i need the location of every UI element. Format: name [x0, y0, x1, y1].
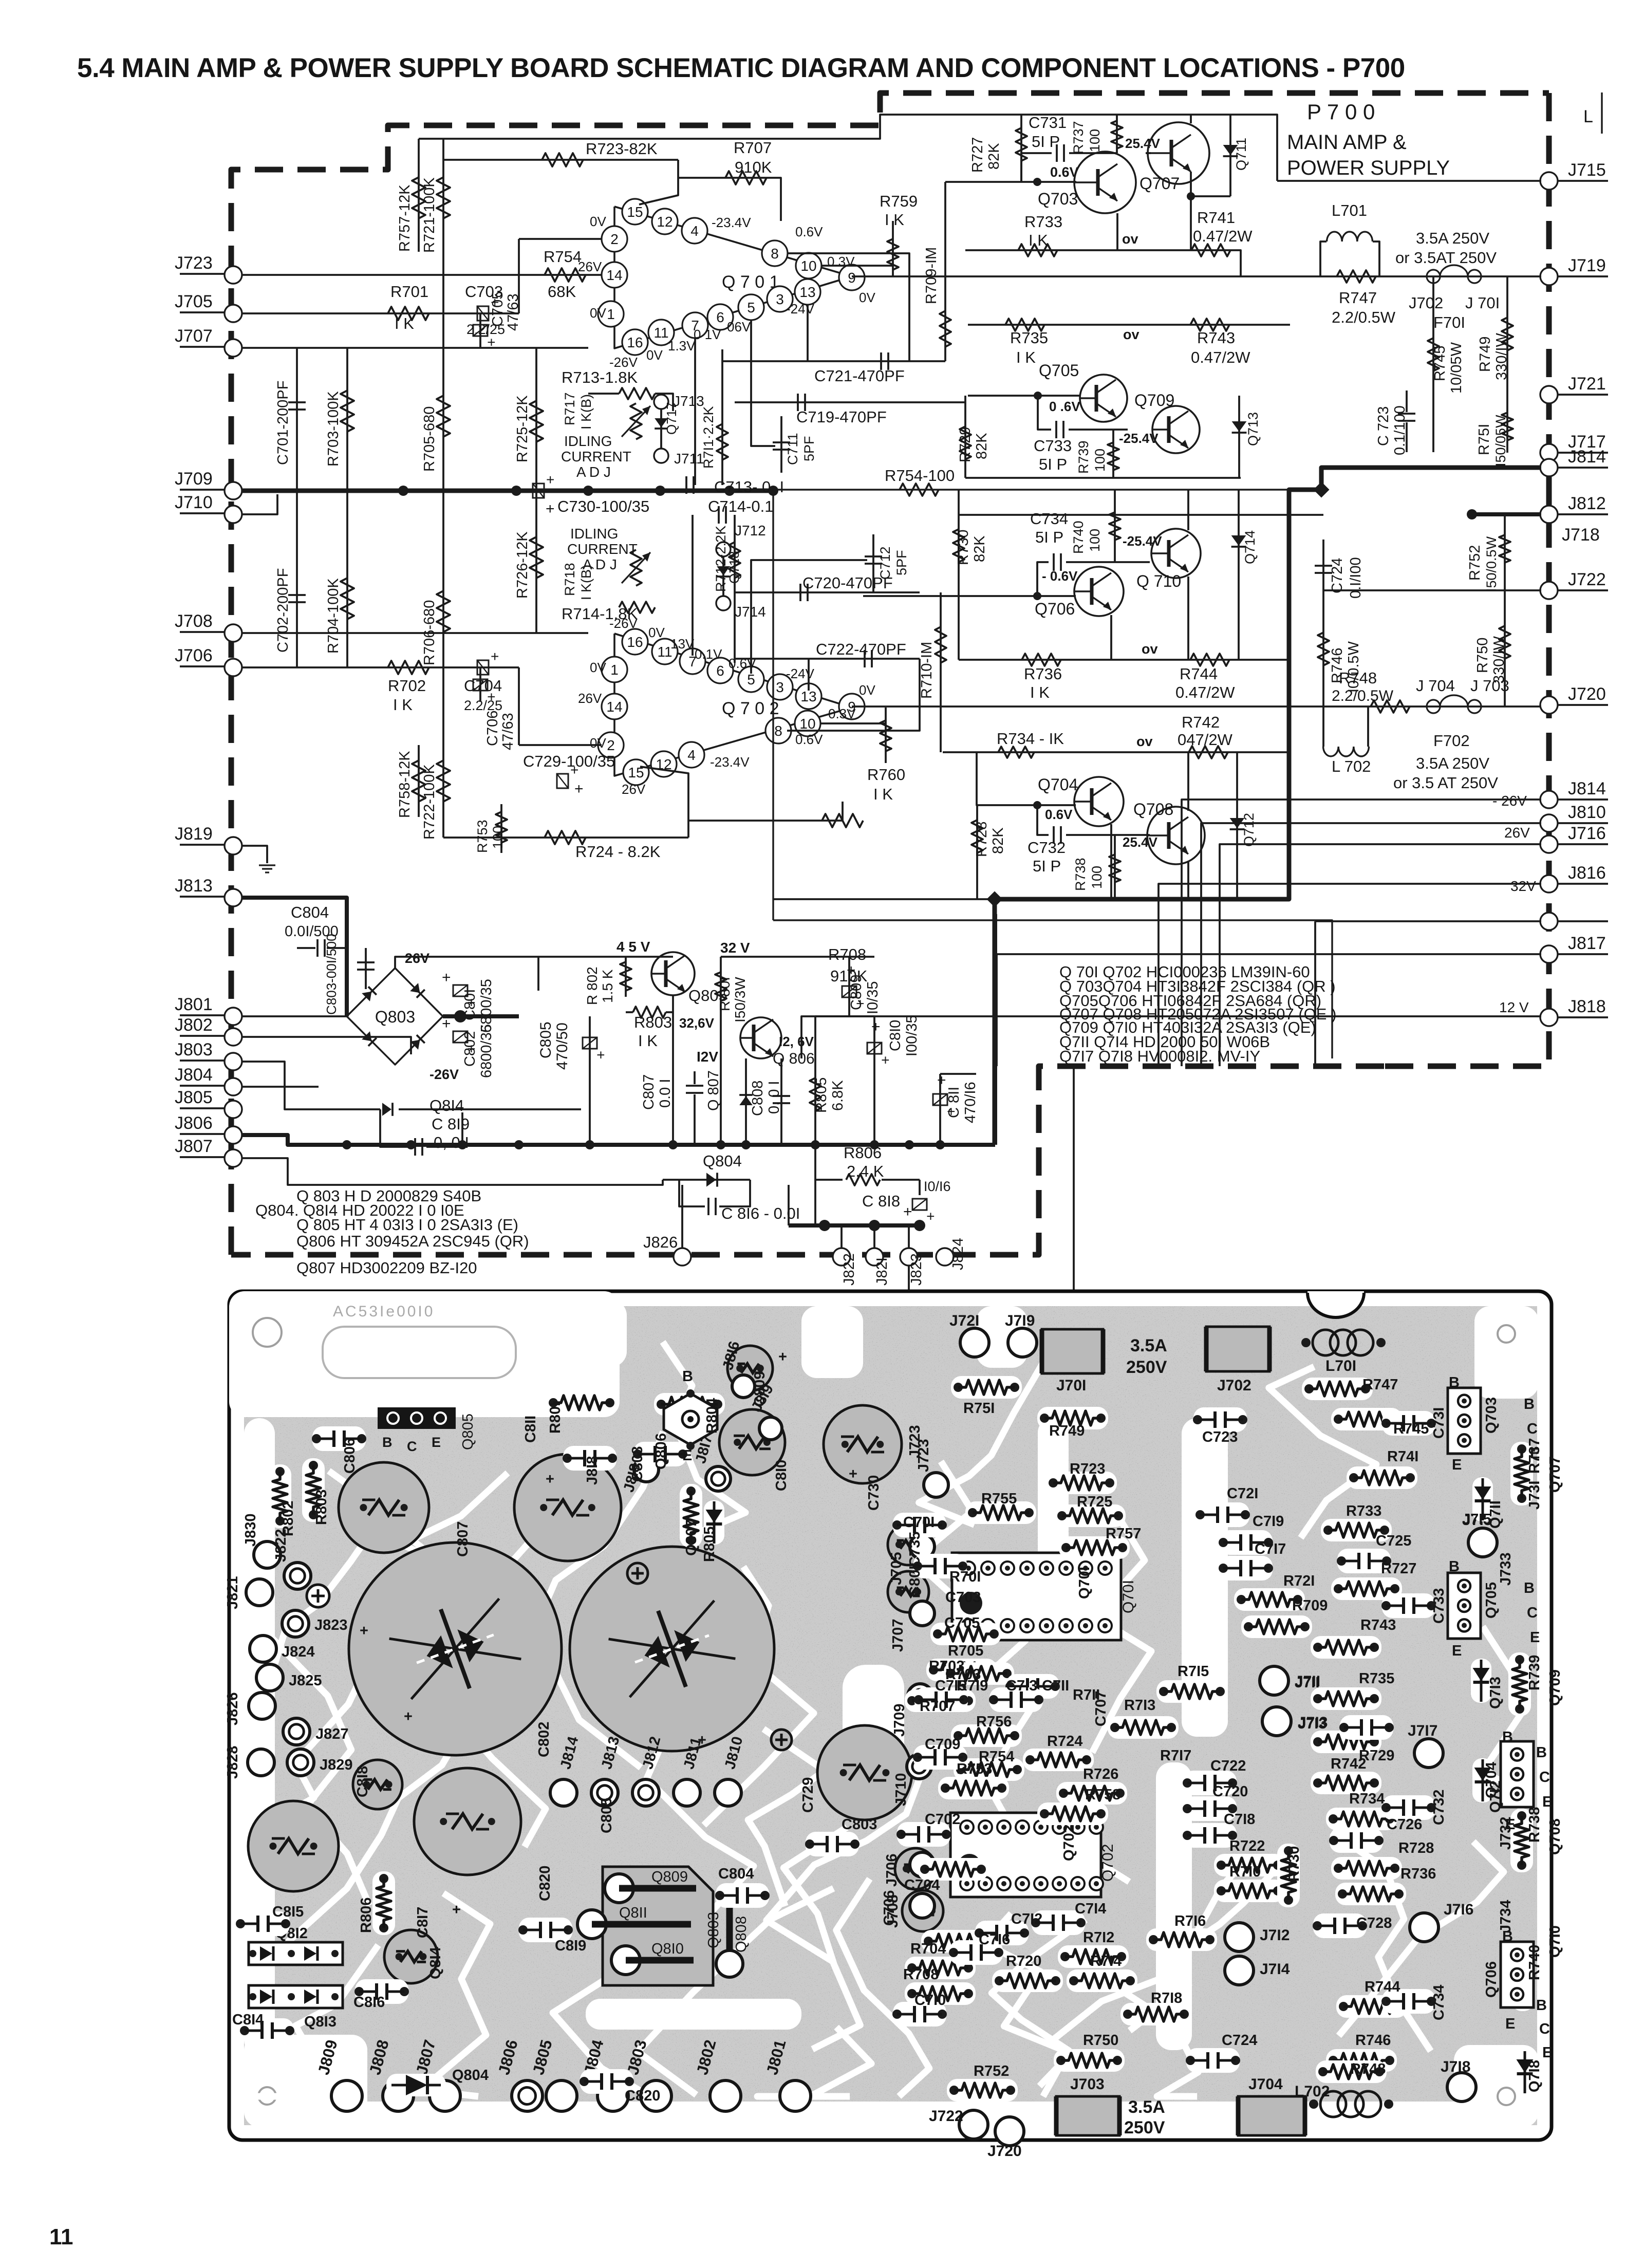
- svg-text:R7I1·2.2K: R7I1·2.2K: [701, 406, 716, 469]
- svg-text:6: 6: [716, 663, 724, 679]
- pad J806: [512, 2080, 543, 2111]
- svg-text:Q708: Q708: [1133, 800, 1173, 819]
- svg-text:Q7I7 Q7I8 HV0008I2. MV-IY: Q7I7 Q7I8 HV0008I2. MV-IY: [1059, 1047, 1260, 1065]
- pad J828: [248, 1749, 274, 1776]
- svg-text:+: +: [483, 693, 499, 701]
- svg-text:6800/35: 6800/35: [478, 1024, 495, 1078]
- resistor R735: [1005, 319, 1044, 331]
- pad J829: [287, 1749, 314, 1776]
- svg-text:100: 100: [1087, 129, 1103, 152]
- wire J707: [242, 347, 588, 349]
- resistor R715 (PCB): [1156, 1680, 1227, 1703]
- svg-text:J710: J710: [175, 493, 213, 512]
- pad J814: [550, 1779, 577, 1806]
- base feed Q704: [977, 752, 1076, 805]
- transistor Q805: [651, 952, 695, 995]
- connector J802: [180, 1035, 225, 1037]
- pad J723: [924, 1473, 948, 1497]
- mount hole: [253, 1318, 282, 1347]
- svg-text:R722-100K: R722-100K: [421, 764, 438, 840]
- svg-text:R756: R756: [976, 1714, 1012, 1730]
- svg-text:J806: J806: [175, 1113, 213, 1133]
- transistor Q703pkg (PCB package): [1448, 1388, 1481, 1454]
- resistor R704: [346, 491, 348, 667]
- svg-text:Q707: Q707: [1139, 174, 1180, 193]
- svg-text:C701-200PF: C701-200PF: [275, 381, 291, 465]
- resistor R710 (PCB): [1214, 1880, 1285, 1902]
- resistor R802pcb (PCB): [269, 1464, 291, 1528]
- Q702 pin 7: [680, 648, 705, 674]
- svg-text:R7I6: R7I6: [1174, 1913, 1206, 1929]
- svg-text:Q702: Q702: [1099, 1844, 1116, 1882]
- svg-text:14: 14: [606, 267, 622, 283]
- resistor R742 (PCB): [1311, 1772, 1381, 1794]
- svg-text:R742: R742: [1182, 713, 1220, 731]
- svg-text:C804: C804: [718, 1866, 754, 1882]
- svg-text:0V: 0V: [646, 347, 663, 363]
- capacitor C723: [1398, 413, 1415, 415]
- pad J823: [282, 1610, 309, 1637]
- connector J711: [654, 449, 668, 463]
- svg-text:R703-100K: R703-100K: [325, 391, 342, 467]
- pad J819: [759, 1417, 782, 1440]
- svg-text:C702: C702: [925, 1811, 960, 1828]
- connector J716: [1540, 835, 1558, 853]
- svg-text:I50/05W: I50/05W: [1493, 415, 1508, 467]
- svg-text:C735: C735: [907, 1532, 923, 1567]
- svg-text:J715: J715: [1568, 160, 1606, 180]
- Q701 pin 14: [602, 262, 627, 288]
- capacitor C801: [453, 985, 479, 1007]
- Q808 bar: [726, 1891, 733, 1960]
- fuse holder J701: [1042, 1329, 1103, 1373]
- junction bus: [870, 1140, 879, 1149]
- svg-text:R80I: R80I: [547, 1402, 564, 1434]
- svg-text:Q708: Q708: [1547, 1818, 1563, 1855]
- svg-text:C8I7: C8I7: [415, 1907, 431, 1938]
- svg-text:C707: C707: [1093, 1691, 1109, 1726]
- wire J705: [242, 312, 519, 314]
- svg-text:Q705: Q705: [1039, 361, 1079, 380]
- capacitor C819: [380, 1109, 411, 1147]
- connector J824: [936, 1248, 954, 1266]
- connector J818: [1540, 1009, 1558, 1026]
- fuse holder J703: [1056, 2096, 1119, 2135]
- connector right pad: [1540, 913, 1558, 930]
- svg-text:J722: J722: [1568, 570, 1606, 589]
- svg-text:+: +: [778, 1349, 787, 1365]
- svg-text:C805: C805: [599, 1798, 615, 1833]
- diode pack Q813 (PCB): [249, 1985, 343, 2008]
- svg-text:R754-100: R754-100: [885, 467, 955, 485]
- wire output bus ch1: [852, 275, 1541, 277]
- svg-text:10/05W: 10/05W: [1448, 342, 1465, 394]
- svg-text:C730: C730: [866, 1475, 882, 1511]
- resistor R730 (PCB): [1277, 1844, 1300, 1907]
- resistor R713 (PCB): [1108, 1716, 1179, 1739]
- svg-text:3: 3: [776, 679, 784, 695]
- svg-text:B: B: [1449, 1374, 1460, 1391]
- capacitor C705pcb (PCB): [888, 1571, 929, 1612]
- pad J708: [910, 1893, 935, 1918]
- svg-text:B: B: [1524, 1580, 1535, 1596]
- svg-text:910K: 910K: [735, 158, 772, 176]
- svg-text:J827: J827: [315, 1726, 349, 1742]
- wire J807: [242, 1158, 663, 1185]
- svg-text:J722: J722: [929, 2108, 963, 2125]
- capacitor C816pcb (PCB): [355, 1979, 408, 2004]
- svg-text:R743: R743: [1360, 1617, 1396, 1633]
- svg-text:Q7I3: Q7I3: [1487, 1677, 1504, 1709]
- connector J719: [1540, 268, 1558, 285]
- svg-text:J826: J826: [225, 1692, 241, 1725]
- connector J705: [180, 311, 225, 313]
- svg-text:- 26V: - 26V: [1492, 793, 1527, 809]
- svg-text:Q809: Q809: [651, 1869, 688, 1885]
- svg-text:1: 1: [607, 306, 615, 322]
- svg-text:L702: L702: [1295, 2083, 1330, 2100]
- svg-text:13: 13: [799, 284, 815, 300]
- capacitor C722-470PF: [735, 658, 920, 660]
- resistor R729 (PCB): [1311, 1731, 1381, 1753]
- diode Q711pcb (PCB): [1472, 1477, 1493, 1521]
- svg-text:R803: R803: [313, 1490, 330, 1525]
- svg-text:R725-12K: R725-12K: [514, 395, 531, 462]
- svg-text:R754: R754: [544, 248, 582, 266]
- svg-text:R738: R738: [1526, 1807, 1543, 1843]
- svg-text:3.5A 250V: 3.5A 250V: [1416, 754, 1489, 772]
- connector J723: [180, 273, 225, 275]
- Q809 bar: [605, 1874, 633, 1903]
- resistor R753 100: [500, 804, 502, 853]
- fuse F702: [1427, 700, 1440, 713]
- svg-text:C820: C820: [537, 1866, 553, 1901]
- svg-text:R745: R745: [1432, 346, 1448, 381]
- capacitor C808pcb (PCB): [633, 1442, 687, 1466]
- capacitor C729 (PCB): [817, 1725, 912, 1820]
- svg-text:J711: J711: [674, 451, 704, 467]
- svg-text:IDLING: IDLING: [564, 433, 612, 449]
- connector J819: [180, 844, 225, 846]
- svg-text:C 8I9: C 8I9: [432, 1115, 470, 1133]
- svg-text:25.4V: 25.4V: [1123, 834, 1158, 850]
- wire pin7 Q701: [694, 339, 696, 485]
- svg-text:R714-1.8K: R714-1.8K: [562, 605, 638, 623]
- svg-text:8: 8: [771, 246, 779, 262]
- svg-text:J7I5: J7I5: [1462, 1511, 1491, 1528]
- resistor R734-1K: [998, 747, 1034, 758]
- svg-text:+: +: [546, 1471, 554, 1488]
- svg-text:R724 - 8.2K: R724 - 8.2K: [575, 843, 661, 861]
- coil L701 (PCB): [1313, 1330, 1338, 1355]
- coil L702 (PCB): [1320, 2091, 1346, 2117]
- svg-text:ov: ov: [1142, 641, 1158, 657]
- svg-text:R723-82K: R723-82K: [586, 140, 658, 158]
- svg-text:E: E: [432, 1435, 441, 1450]
- svg-text:Q8II: Q8II: [619, 1905, 647, 1921]
- resistor R757-12K: [418, 139, 420, 252]
- capacitor C814pcb (PCB): [240, 2018, 294, 2043]
- svg-text:5I P: 5I P: [1035, 528, 1063, 546]
- svg-text:J813: J813: [175, 876, 213, 896]
- connector J709: [180, 489, 225, 491]
- svg-text:I50/0.5W: I50/0.5W: [1484, 536, 1499, 592]
- svg-text:C709: C709: [925, 1736, 960, 1753]
- svg-text:Q7I8: Q7I8: [1526, 2060, 1543, 2092]
- svg-text:R727: R727: [969, 137, 986, 173]
- svg-text:J702: J702: [1217, 1377, 1251, 1394]
- svg-text:Q711: Q711: [1234, 138, 1249, 171]
- svg-text:R701: R701: [390, 283, 428, 301]
- svg-text:J719: J719: [1568, 256, 1606, 275]
- pad J825: [256, 1664, 283, 1691]
- capacitor C706pcb (PCB): [902, 1890, 943, 1931]
- wire J802: [242, 1037, 411, 1054]
- connector J707: [180, 346, 225, 348]
- resistor R805: [814, 1016, 816, 1145]
- svg-text:06V: 06V: [727, 319, 751, 334]
- svg-text:0.1/100: 0.1/100: [1392, 405, 1408, 455]
- resistor R748: [1371, 700, 1410, 713]
- svg-text:MAIN AMP &: MAIN AMP &: [1287, 131, 1407, 154]
- capacitor C719 (PCB): [1219, 1530, 1273, 1555]
- capacitor C805: [589, 1016, 591, 1145]
- svg-text:0.6V: 0.6V: [795, 224, 823, 239]
- capacitor C719-470PF: [735, 401, 965, 403]
- capacitor C720 (PCB): [1183, 1796, 1237, 1821]
- base line Q705: [968, 395, 1081, 397]
- junction bus: [716, 1140, 725, 1149]
- svg-text:0.I/I00: 0.I/I00: [1348, 557, 1364, 599]
- svg-text:C730-100/35: C730-100/35: [557, 497, 649, 515]
- resistor R718 (PCB): [1120, 2003, 1191, 2025]
- svg-text:J712: J712: [735, 523, 766, 538]
- resistor R725-12K: [535, 348, 537, 491]
- svg-text:5I P: 5I P: [1032, 133, 1060, 151]
- svg-text:C711: C711: [785, 433, 800, 465]
- svg-text:1: 1: [610, 662, 619, 678]
- svg-text:I K: I K: [1016, 348, 1036, 366]
- pad J803: [641, 2080, 671, 2111]
- svg-text:C803-00I/500: C803-00I/500: [324, 934, 339, 1015]
- svg-text:R730: R730: [1286, 1846, 1302, 1882]
- svg-text:R750: R750: [1083, 2032, 1118, 2049]
- svg-text:0V: 0V: [859, 682, 875, 698]
- resistor R737 100: [1116, 115, 1118, 153]
- svg-text:C8I0: C8I0: [887, 1020, 904, 1051]
- svg-text:2: 2: [610, 231, 619, 247]
- diode Q712pcb (PCB): [1472, 1758, 1493, 1802]
- traces: [535, 1432, 663, 1665]
- svg-text:E: E: [1505, 2016, 1515, 2032]
- capacitor C801 (PCB): [570, 1547, 774, 1751]
- svg-text:R7I7: R7I7: [1160, 1748, 1191, 1764]
- connector J715: [1540, 172, 1558, 190]
- diode Q712: [1236, 752, 1238, 899]
- svg-text:C73I: C73I: [1431, 1407, 1447, 1439]
- connector J706: [180, 665, 225, 667]
- thin drop x1505: [772, 491, 774, 920]
- svg-text:Q 7 0 2: Q 7 0 2: [722, 699, 779, 718]
- capacitor C703pcb (PCB): [888, 1524, 929, 1565]
- svg-text:C804: C804: [291, 903, 329, 921]
- svg-text:C 723: C 723: [1375, 406, 1392, 446]
- capacitor C810 (PCB): [719, 1409, 785, 1475]
- wire pin13 Q702: [808, 659, 810, 691]
- svg-text:100: 100: [490, 826, 506, 849]
- svg-text:R75I: R75I: [963, 1400, 995, 1417]
- resistor R756 (PCB): [951, 1724, 1022, 1747]
- svg-text:2.2/0.5W: 2.2/0.5W: [1332, 687, 1394, 704]
- svg-text:J705: J705: [175, 292, 213, 311]
- svg-text:R733: R733: [1346, 1503, 1381, 1519]
- svg-text:+: +: [483, 338, 499, 346]
- capacitor C811: [939, 1074, 941, 1145]
- svg-text:J 704: J 704: [1416, 677, 1455, 695]
- svg-text:C734: C734: [1030, 510, 1068, 528]
- transistor Q805 (PCB): [378, 1407, 456, 1429]
- svg-text:R737: R737: [1526, 1438, 1543, 1474]
- svg-text:0.3V: 0.3V: [828, 706, 856, 721]
- svg-text:3.5A: 3.5A: [1130, 1336, 1167, 1355]
- svg-text:5: 5: [747, 300, 755, 315]
- svg-text:5PF: 5PF: [894, 550, 909, 575]
- svg-text:J823: J823: [314, 1617, 348, 1633]
- svg-text:0V: 0V: [859, 290, 875, 305]
- svg-text:26V: 26V: [622, 782, 646, 797]
- resistor R722-100K: [442, 667, 444, 838]
- svg-text:Q707: Q707: [1547, 1456, 1563, 1493]
- junction bus: [905, 1140, 914, 1149]
- resistor R729 82K: [964, 396, 966, 478]
- svg-text:Q 710: Q 710: [1136, 572, 1181, 590]
- svg-text:I K(B): I K(B): [578, 394, 594, 430]
- diode Q804 (PCB): [386, 2074, 446, 2096]
- svg-text:C725: C725: [1376, 1533, 1411, 1549]
- capacitor C711 (PCB): [1006, 1674, 1059, 1699]
- svg-text:J707: J707: [890, 1619, 906, 1652]
- svg-text:I K: I K: [393, 696, 413, 714]
- svg-text:C7I7: C7I7: [1255, 1541, 1286, 1557]
- Q701 pin 12: [652, 209, 678, 234]
- svg-text:100: 100: [1089, 866, 1105, 889]
- connector J713: [654, 395, 668, 409]
- svg-text:R713-1.8K: R713-1.8K: [562, 368, 638, 386]
- trace channel: [1038, 1418, 1069, 1634]
- rail J716: [1220, 844, 1541, 1066]
- pad J713: [1262, 1707, 1291, 1736]
- capacitor C819pcb (PCB): [519, 1918, 572, 1942]
- svg-text:J7I8: J7I8: [1441, 2058, 1470, 2075]
- transistor Q707: [1148, 122, 1209, 184]
- capacitor C811 (PCB): [514, 1454, 621, 1561]
- resistor R743 (PCB): [1311, 1636, 1381, 1659]
- Q702 pin 8: [765, 718, 791, 743]
- wire pin5 Q701: [751, 321, 775, 446]
- svg-text:R739: R739: [1526, 1655, 1543, 1690]
- svg-text:3.5A 250V: 3.5A 250V: [1416, 229, 1489, 247]
- svg-text:R724: R724: [1047, 1733, 1082, 1750]
- svg-text:26V: 26V: [578, 691, 602, 706]
- svg-text:82K: 82K: [986, 143, 1002, 170]
- capacitor C810: [873, 1016, 875, 1145]
- svg-text:C720: C720: [1212, 1783, 1248, 1800]
- resistor R806: [815, 1145, 843, 1180]
- svg-text:J706: J706: [884, 1853, 900, 1887]
- svg-text:J709: J709: [175, 469, 213, 489]
- svg-text:Q713: Q713: [1245, 412, 1261, 446]
- resistor R709 (PCB): [1241, 1615, 1312, 1638]
- connector J813: [180, 896, 225, 898]
- svg-text:J70I: J70I: [1056, 1377, 1086, 1394]
- svg-text:J7I7: J7I7: [1408, 1722, 1437, 1739]
- svg-text:Q7I2: Q7I2: [1487, 1780, 1504, 1813]
- svg-text:C80I: C80I: [907, 1566, 923, 1597]
- svg-text:C722-470PF: C722-470PF: [816, 640, 906, 658]
- svg-text:250V: 250V: [1124, 2118, 1165, 2137]
- svg-text:J816: J816: [1568, 863, 1606, 883]
- svg-text:+: +: [452, 1902, 461, 1918]
- svg-text:J802: J802: [175, 1015, 213, 1035]
- svg-text:J826: J826: [643, 1233, 678, 1251]
- op-amp U Q701 triangle: [614, 207, 852, 348]
- pad J720: [995, 2117, 1024, 2146]
- svg-text:R707: R707: [734, 139, 772, 157]
- junction bus: [406, 1140, 416, 1149]
- transistor Q706pkg (PCB package): [1501, 1942, 1534, 2007]
- svg-text:82K: 82K: [972, 535, 988, 562]
- svg-text:C724: C724: [1222, 2032, 1257, 2049]
- svg-text:R737: R737: [1071, 121, 1086, 154]
- Q701 pin 7: [682, 312, 708, 338]
- svg-text:J7I4: J7I4: [1260, 1961, 1290, 1978]
- svg-text:Q70I: Q70I: [1076, 1567, 1093, 1599]
- junction bus: [811, 1140, 820, 1149]
- svg-text:C732: C732: [1431, 1790, 1447, 1825]
- svg-text:Q806 HT 309452A 2SC945 (: Q806 HT 309452A 2SC945 (QR): [296, 1232, 529, 1250]
- rail 12V J818: [801, 1016, 1541, 1058]
- svg-text:0.0 I: 0.0 I: [657, 1079, 674, 1108]
- svg-text:R712-2.2K: R712-2.2K: [713, 526, 728, 592]
- svg-text:C: C: [1527, 1421, 1538, 1437]
- trace channel: [843, 1665, 904, 1798]
- svg-text:C732: C732: [1027, 839, 1066, 857]
- resistor R701: [388, 307, 429, 320]
- capacitor C733pcb (PCB): [1382, 1593, 1435, 1618]
- junction bus: [668, 1140, 678, 1149]
- svg-text:C7I0: C7I0: [914, 1992, 946, 2009]
- svg-text:+: +: [574, 780, 584, 797]
- capacitor C723 (PCB): [1193, 1407, 1247, 1432]
- connector J801: [180, 1014, 225, 1016]
- svg-text:C719-470PF: C719-470PF: [796, 408, 887, 426]
- resistor R746 (PCB): [1326, 2049, 1397, 2072]
- transistor Q710: [1151, 529, 1201, 578]
- svg-text:F702: F702: [1433, 732, 1470, 750]
- capacitor C816: [679, 1180, 705, 1206]
- resistor R716 (PCB): [1146, 1928, 1217, 1951]
- capacitor C720-470PF: [735, 591, 920, 593]
- svg-text:8: 8: [774, 723, 782, 739]
- svg-text:J720: J720: [987, 2143, 1022, 2160]
- svg-text:R75I: R75I: [1476, 424, 1492, 455]
- resistor R704 (PCB): [905, 1957, 976, 1979]
- svg-text:R740: R740: [1071, 520, 1086, 554]
- capacitor C702: [296, 491, 298, 667]
- svg-text:+: +: [404, 1708, 413, 1725]
- svg-text:J73I: J73I: [1526, 1481, 1543, 1510]
- resistor R723-82K: [443, 159, 678, 161]
